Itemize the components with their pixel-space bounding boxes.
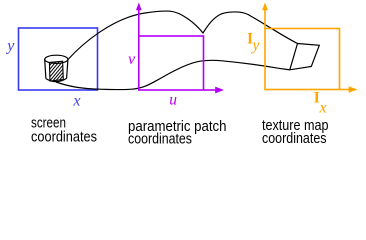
svg-text:u: u bbox=[169, 92, 177, 109]
u axis arrowhead bbox=[215, 87, 224, 94]
Iy axis line bbox=[264, 9, 266, 29]
mapped quadrilateral patch in texture box bbox=[290, 44, 320, 70]
Ix axis arrowhead bbox=[349, 86, 358, 93]
svg-text:y: y bbox=[5, 38, 15, 55]
cylinder right side bbox=[67, 60, 68, 79]
v axis line bbox=[138, 9, 140, 36]
svg-text:coordinates: coordinates bbox=[128, 132, 192, 148]
screen coordinates box (blue rectangle) bbox=[19, 28, 98, 90]
patch hatch lines bbox=[50, 62, 64, 81]
Iy axis arrowhead bbox=[262, 3, 268, 11]
svg-text:x: x bbox=[72, 93, 80, 110]
parametric patch square (magenta) bbox=[139, 36, 204, 90]
Ix axis line bbox=[340, 89, 351, 91]
lower mapping curve: cylinder bottom -> through square -> texture quad corner bbox=[56, 60, 290, 89]
cylinder bottom arc bbox=[46, 78, 67, 81]
upper mapping curve: cylinder patch -> parametric square corner -> texture quad bbox=[68, 11, 298, 59]
svg-text:coordinates: coordinates bbox=[262, 131, 327, 147]
svg-text:coordinates: coordinates bbox=[31, 130, 97, 146]
texture map box (orange) bbox=[265, 29, 340, 90]
svg-text:v: v bbox=[128, 51, 135, 68]
v axis arrowhead bbox=[136, 3, 142, 11]
cylinder top ellipse bbox=[45, 55, 68, 63]
cylinder left side bbox=[45, 60, 46, 79]
hatched patch outline on cylinder bbox=[49, 61, 63, 81]
u axis line bbox=[204, 89, 217, 91]
